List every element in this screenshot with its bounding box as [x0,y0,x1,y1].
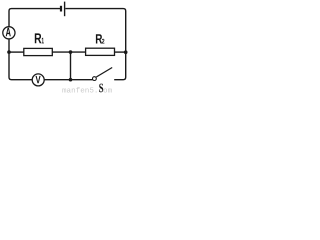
voltmeter V [32,74,44,86]
node B (mid junction) [69,50,73,54]
wire top-left: ammeter top up to corner, across to battery negative plate [9,9,60,27]
wire: node A to R1 left lead [9,51,24,53]
ammeter A [3,27,15,39]
svg-text:manfen5.com: manfen5.com [62,87,113,95]
node A (left junction) [7,50,11,54]
resistor R1 [24,48,53,55]
battery positive (long) plate [64,2,66,17]
wire left: ammeter bottom down to node A [8,39,10,52]
wire right: node C down to bottom-right corner, across to switch fixed contact [114,52,126,79]
wire: R1 right lead to R2 left lead through node B [52,51,85,53]
wire top-right: battery positive plate to top-right corner, down to node C [65,9,125,52]
switch lever arm [96,68,112,78]
resistor R2 [86,48,115,55]
label S [99,84,103,93]
wire: node D to voltmeter right terminal [44,79,70,81]
battery B1 [61,2,65,17]
battery negative (short) plate [60,6,62,12]
wire bottom-left: voltmeter left terminal to corner, up to node A [9,52,32,79]
wire: R2 right lead to node C [115,51,126,53]
wire: switch pivot to node D [71,79,93,81]
label R2 [96,34,104,43]
node D (bottom mid junction) [69,78,73,82]
label R1 [35,33,44,43]
wire: vertical link node B to node D [70,52,72,80]
switch pivot contact [93,77,97,81]
switch S [93,68,113,81]
node C (right junction) [124,50,128,54]
